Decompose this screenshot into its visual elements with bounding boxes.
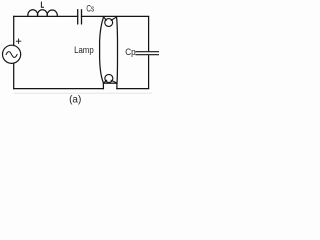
scan artifact faint line xyxy=(14,92,152,94)
wire right branch upper xyxy=(148,16,150,51)
wire left branch lower xyxy=(13,63,15,88)
lamp top filament circle xyxy=(105,19,113,27)
wire right branch lower xyxy=(148,55,150,88)
wire top rail left segment xyxy=(14,15,78,17)
svg-text:Lamp: Lamp xyxy=(74,44,94,55)
lamp bottom filament lead left xyxy=(104,80,107,83)
label L (drawn) xyxy=(41,2,44,8)
wire top rail right segment xyxy=(82,15,149,17)
polarity plus sign xyxy=(16,39,20,43)
wire bottom rail left segment xyxy=(14,88,104,90)
svg-text:(a): (a) xyxy=(69,95,81,106)
lamp bottom stub right xyxy=(116,83,118,88)
lamp bottom filament lead right xyxy=(111,80,116,83)
capacitor Cs plates xyxy=(78,10,82,24)
lamp tube right wall xyxy=(117,17,118,83)
inductor L xyxy=(28,10,57,17)
AC source sine symbol xyxy=(6,52,17,58)
capacitor Cp plates xyxy=(136,52,158,55)
lamp bottom filament circle xyxy=(105,74,113,82)
lamp top filament lead right xyxy=(111,17,116,20)
lamp top filament lead left xyxy=(104,17,106,20)
lamp tube left wall xyxy=(100,17,104,83)
AC source V1 xyxy=(3,45,21,63)
wire left branch upper xyxy=(13,16,15,45)
svg-text:Cp: Cp xyxy=(125,47,135,57)
lamp bottom stub left xyxy=(102,83,104,88)
svg-text:Cs: Cs xyxy=(86,3,94,13)
wire bottom rail right segment xyxy=(117,88,149,90)
lamp tube bottom edge xyxy=(103,82,117,84)
